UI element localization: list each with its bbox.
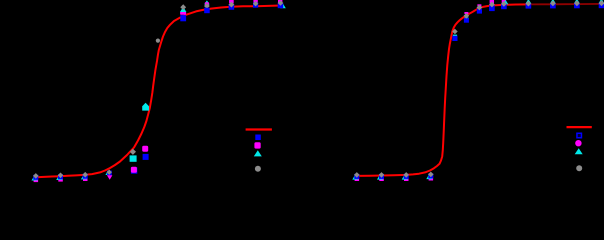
- left plot fitted curve (red sigmoid): [36, 6, 281, 178]
- left plot cluster x=85 (gray circle): [82, 172, 88, 178]
- right plot cluster x=553 (gray circle): [550, 1, 556, 7]
- right plot cluster x=504 (magenta square): [502, 0, 506, 3]
- right plot cluster x=504 (cyan triangle): [503, 0, 509, 4]
- left plot cluster x=231 (blue square): [229, 4, 235, 10]
- right plot cluster x=577 (blue square): [574, 3, 580, 9]
- right plot cluster x=466 (cyan sliver): [464, 18, 468, 20]
- right plot cluster x=504 (gray circle): [501, 1, 507, 7]
- left plot cluster x=60 (gray circle): [58, 173, 64, 179]
- right plot cluster x=553 (blue square): [550, 3, 556, 9]
- right legend magenta circle: [575, 140, 581, 146]
- left plot cluster x=110 (gray diamond): [107, 170, 112, 175]
- right plot cluster x=431 (magenta square): [429, 176, 434, 181]
- right plot cluster x=479 (blue square): [477, 9, 482, 14]
- left plot cluster x=110 (blue square): [107, 171, 112, 176]
- right plot cluster x=528 (cyan triangle): [526, 0, 532, 3]
- right plot cluster x=431 (gray circle): [428, 172, 434, 178]
- right plot cluster x=492 (gray circle): [489, 2, 495, 8]
- left plot gray point (133,152): [130, 149, 136, 155]
- right plot cluster x=454 (cyan sliver): [453, 35, 457, 37]
- left plot cluster x=36 (magenta square): [34, 178, 39, 183]
- right legend gray circle: [576, 165, 582, 171]
- left plot magenta point (134,169.7): [131, 167, 137, 173]
- right plot cluster x=528 (magenta square): [526, 4, 531, 7]
- right plot cluster x=357 (blue square): [354, 174, 359, 179]
- right plot cluster x=553 (cyan triangle): [550, 0, 556, 3]
- left plot cluster x=60 (cyan triangle): [56, 175, 62, 180]
- left plot cluster x=36 (cyan triangle): [32, 175, 38, 180]
- left plot cluster x=60 (magenta square): [58, 177, 63, 182]
- right plot cluster x=601.5 (blue square): [599, 3, 604, 9]
- left plot cluster x=207 (blue square): [204, 8, 210, 14]
- right plot cluster x=406 (blue square): [404, 174, 409, 179]
- right legend cyan triangle: [575, 148, 583, 154]
- left plot cluster x=36 (blue square): [33, 175, 38, 180]
- left plot cluster x=256 (gray circle): [253, 1, 258, 6]
- left plot cluster x=36 (gray circle): [33, 173, 39, 179]
- left legend gray circle: [255, 166, 261, 172]
- left legend blue square: [255, 135, 260, 141]
- left plot cluster x=207 (gray circle): [204, 3, 210, 9]
- right plot cluster x=431 (cyan triangle): [426, 174, 432, 179]
- right plot cluster x=601.5 (cyan triangle): [599, 0, 604, 3]
- left plot cluster x=85 (magenta square): [83, 177, 88, 182]
- left legend magenta square: [254, 142, 260, 148]
- right plot cluster x=406 (magenta square): [404, 177, 409, 182]
- right plot cluster x=528 (blue square): [526, 3, 532, 9]
- left plot cluster x=183 (blue square): [180, 15, 186, 21]
- left plot blue point (134,170.5): [131, 167, 137, 173]
- left plot cluster x=207 (magenta square): [205, 2, 209, 6]
- right legend blue square dark center: [578, 134, 581, 137]
- left plot blue point (145.6,157): [143, 154, 149, 160]
- right plot cluster x=601.5 (magenta square): [599, 4, 604, 7]
- left plot cluster x=281 (blue square): [278, 3, 284, 9]
- left plot cluster x=60 (blue square): [58, 174, 63, 179]
- right plot fitted curve (red sigmoid): [357, 4, 528, 176]
- right plot cluster x=406 (gray circle): [403, 172, 409, 178]
- left plot cluster x=110 (magenta triangle down): [107, 175, 113, 179]
- right legend red line: [567, 126, 592, 128]
- left plot cyan point (145.6,107): [142, 103, 149, 111]
- right legend blue square: [576, 133, 582, 139]
- left plot cluster x=207 (cyan triangle): [204, 0, 210, 4]
- left plot cluster x=231 (magenta square): [229, 0, 234, 3]
- left legend red line: [246, 128, 272, 130]
- right plot cluster x=406 (cyan triangle): [402, 174, 408, 179]
- right plot cluster x=577 (gray circle): [574, 0, 580, 6]
- right plot cluster x=381.5 (cyan triangle): [377, 174, 383, 179]
- left plot cluster x=85 (cyan triangle): [81, 174, 87, 179]
- left plot cluster x=256 (cyan triangle): [253, 2, 259, 7]
- left plot cluster x=231 (cyan triangle): [228, 2, 234, 7]
- right plot cluster x=553 (magenta square): [550, 4, 555, 7]
- right plot cluster x=528 (gray circle): [526, 1, 532, 7]
- right plot cluster x=431 (blue square): [428, 173, 433, 178]
- right plot cluster x=357 (gray circle): [354, 172, 360, 178]
- right plot cluster x=504 (blue square): [501, 4, 507, 10]
- left plot cluster x=231 (gray circle): [229, 2, 235, 8]
- left plot cluster x=256 (magenta square): [253, 0, 257, 3]
- right plot cluster x=577 (cyan triangle): [574, 0, 580, 3]
- left legend cyan triangle: [254, 150, 262, 156]
- left plot gray point (158,40): [156, 39, 160, 43]
- right plot cluster x=492 (magenta square): [490, 0, 494, 4]
- right plot cluster x=381.5 (blue square): [379, 174, 384, 179]
- left plot cluster x=85 (blue square): [83, 174, 88, 179]
- right plot cluster x=381.5 (gray circle): [379, 172, 385, 178]
- left plot cluster x=281 (magenta square): [278, 0, 282, 3]
- right plot cluster x=357 (magenta square): [355, 177, 360, 182]
- right plot cluster x=466 (magenta tip): [464, 12, 468, 14]
- left plot cluster x=256 (blue square): [253, 3, 258, 8]
- left plot cluster x=281 (gray circle): [278, 0, 284, 6]
- left plot cluster x=183 (cyan triangle): [180, 7, 186, 12]
- right plot cluster x=577 (magenta square): [574, 4, 579, 7]
- right plot cluster x=466 (blue square): [464, 18, 469, 23]
- right plot cluster x=381.5 (magenta square): [379, 177, 384, 182]
- left plot cluster x=110 (cyan triangle): [105, 171, 110, 175]
- right plot cluster x=454 (gray diamond): [452, 29, 458, 35]
- right plot cluster x=601.5 (gray circle): [599, 0, 604, 6]
- left plot magenta point (145,149): [142, 146, 148, 152]
- right plot cluster x=479 (magenta tip): [477, 4, 481, 6]
- right plot cluster x=479 (gray diamond): [477, 5, 483, 11]
- left plot cluster x=183 (magenta square): [180, 11, 186, 14]
- right plot dark red plateau line: [528, 3, 602, 6]
- right plot cluster x=357 (cyan triangle): [352, 174, 358, 179]
- left plot cyan point (133,159): [130, 155, 137, 161]
- left plot cluster x=183 (gray diamond): [180, 4, 186, 10]
- right plot cluster x=466 (gray diamond): [464, 13, 470, 19]
- right plot cluster x=454 (blue square): [452, 36, 457, 41]
- right plot cluster x=492 (blue square): [489, 6, 495, 12]
- left plot cluster x=281 (cyan triangle): [280, 4, 286, 9]
